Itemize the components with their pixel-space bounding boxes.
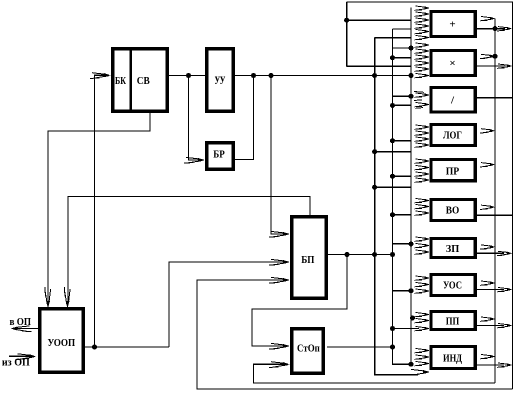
node dot V1: [344, 18, 349, 23]
wire V3 stub to ПП input 3: [393, 328, 420, 330]
arrows cluster + inputs: [415, 6, 430, 40]
arrow into УООП top 1: [45, 287, 51, 308]
block УУ: [207, 49, 234, 112]
node dots V3: [390, 55, 395, 60]
arrow into СтОп input 2: [269, 362, 290, 368]
wire / output: [477, 97, 513, 99]
block /: [431, 88, 475, 112]
wire bus V1 with stubs: [347, 2, 411, 66]
block ЗП: [431, 239, 475, 258]
wire УООП output up to БП input 2: [169, 262, 287, 347]
svg-text:ПП: ПП: [446, 315, 460, 327]
svg-text:×: ×: [449, 57, 455, 69]
wire х output 2: [477, 65, 505, 67]
arrow into БК: [90, 73, 111, 79]
wire bus V3: [393, 29, 412, 364]
wire УООП output: [85, 346, 169, 348]
svg-text:ЗП: ЗП: [446, 243, 460, 255]
arrows cluster ПП inputs: [415, 313, 430, 323]
svg-text:из ОП: из ОП: [2, 357, 30, 368]
arrow into БП input 2: [269, 259, 290, 265]
wire УОС output 2: [477, 289, 504, 291]
wire junction down to БП input 1: [271, 76, 287, 235]
wire bus V2 stubs: [375, 152, 411, 188]
arrow ЗП output 2: [497, 251, 512, 255]
arrow х output 1: [480, 54, 495, 58]
block ПП: [431, 312, 475, 330]
wire ИНД output 2: [477, 364, 504, 366]
arrow ПП output 2: [497, 324, 512, 328]
arrow в ОП pointing left: [11, 326, 32, 332]
wire ПП output 2: [477, 325, 504, 327]
wire в ОП out: [13, 328, 38, 330]
svg-text:в ОП: в ОП: [10, 317, 32, 328]
wire УУ output to input bus: [235, 75, 411, 77]
wire input bus vertical: [410, 8, 412, 365]
wire БП output to bus V3: [328, 254, 393, 256]
node dot БП output: [345, 252, 350, 257]
arrows cluster ВО inputs: [415, 199, 430, 216]
svg-text:БП: БП: [301, 254, 315, 266]
arrows cluster ИНД inputs: [415, 349, 430, 366]
svg-text:УООП: УООП: [47, 337, 75, 349]
arrow into ИНД bottom: [409, 369, 430, 375]
arrow ПР output: [480, 163, 495, 167]
wire bus V3 stubs: [393, 48, 412, 291]
arrow into ПП input 3: [415, 327, 430, 331]
block х: [431, 51, 475, 76]
block СтОп: [292, 329, 324, 374]
svg-text:+: +: [449, 18, 455, 30]
divider БК/СВ: [130, 49, 132, 112]
block +: [431, 12, 475, 37]
wire БП output down to СтОп input 1: [252, 255, 347, 347]
wire ВО output 2: [477, 214, 513, 216]
arrow ИНД output 1: [480, 355, 495, 359]
svg-text:ПР: ПР: [446, 165, 460, 177]
wire junction down to БР input: [189, 76, 203, 161]
arrow into БР: [184, 157, 205, 163]
wire БП top to УООП top input 2: [68, 197, 310, 305]
arrow + output 2: [497, 27, 512, 31]
block УООП: [40, 309, 83, 372]
arrow into УООП top 2: [64, 287, 70, 308]
arrow ЗП output 1: [480, 245, 495, 249]
arrow ЛОГ output: [480, 129, 495, 133]
node dots V2: [372, 149, 377, 154]
wire return vertical A: [494, 19, 496, 384]
node junction dots left: [186, 73, 191, 78]
block БР: [207, 143, 234, 170]
arrows cluster ПР inputs: [415, 159, 430, 182]
wire bus V2: [375, 38, 418, 375]
block ИНД: [431, 347, 475, 369]
arrow ИНД output 2: [497, 363, 512, 367]
svg-text:ВО: ВО: [446, 204, 460, 216]
block ВО: [431, 200, 475, 221]
arrow into БП input 3: [269, 277, 290, 283]
arrow ПП output 1: [480, 317, 495, 321]
svg-text:СВ: СВ: [137, 75, 151, 87]
arrow ВО output: [480, 205, 495, 209]
svg-text:СтОп: СтОп: [297, 343, 320, 355]
wire БР output up to УУ line: [235, 76, 254, 160]
node dots input bus: [409, 46, 414, 51]
arrow УОС output 2: [497, 288, 512, 292]
svg-text:ИНД: ИНД: [443, 352, 462, 364]
wire БК/СВ bottom to УООП top input 1: [48, 113, 150, 304]
arrows cluster ЛОГ inputs: [415, 125, 430, 147]
arrow из ОП into УООП: [16, 354, 37, 360]
block УОС: [431, 275, 475, 296]
arrows cluster ЗП inputs: [415, 237, 430, 254]
wire БК/СВ to УУ: [169, 75, 205, 77]
node dots return vertical A: [493, 26, 498, 31]
arrows cluster / inputs: [414, 92, 430, 109]
wire top feedback loop: [347, 2, 513, 389]
arrow УОС output 1: [480, 281, 495, 285]
arrow into СтОп input 1: [269, 343, 290, 349]
svg-text:уу: уу: [215, 73, 226, 85]
wire + output 2: [477, 28, 505, 30]
wire из ОП in: [9, 355, 33, 357]
block ЛОГ: [431, 125, 475, 146]
wire СтОп output to bus V3: [327, 346, 393, 348]
block ПР: [431, 160, 475, 181]
wire up to БК input: [95, 75, 109, 347]
arrow into БП input 1: [269, 231, 290, 237]
wire return line B to БП input 3: [197, 280, 513, 389]
wire ЗП output 2: [477, 252, 504, 254]
arrows cluster УОС inputs: [415, 276, 430, 293]
svg-text:ЛОГ: ЛОГ: [443, 129, 462, 141]
arrow х output 2: [497, 64, 512, 68]
arrow + output 1: [480, 17, 495, 21]
block БК/СВ: [113, 49, 168, 112]
svg-text:УОС: УОС: [443, 279, 462, 291]
block БП: [292, 217, 327, 299]
wire return line A to СтОп input 2: [254, 364, 496, 383]
svg-text:БР: БР: [213, 149, 225, 161]
arrows cluster х inputs: [415, 43, 430, 78]
svg-text:БК: БК: [115, 75, 126, 87]
